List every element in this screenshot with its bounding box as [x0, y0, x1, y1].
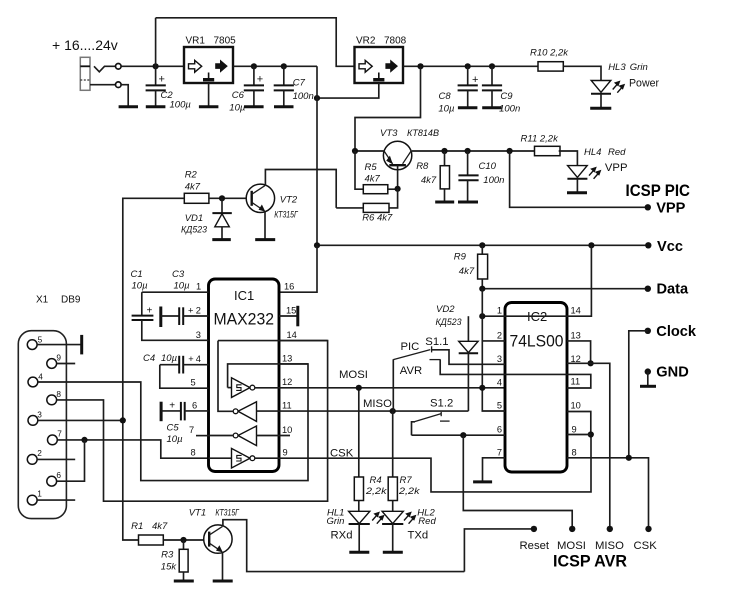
svg-text:IC1: IC1	[234, 288, 254, 303]
svg-text:10: 10	[282, 425, 292, 435]
svg-text:3: 3	[196, 330, 201, 340]
svg-text:КД523: КД523	[436, 317, 463, 328]
junction: VT3 feed	[417, 63, 423, 69]
svg-text:RXd: RXd	[331, 530, 353, 542]
svg-text:1: 1	[196, 282, 201, 292]
junction: pin1/Data riser	[479, 313, 485, 319]
svg-text:11: 11	[571, 376, 581, 386]
resistor R2	[184, 193, 209, 203]
wire: Vcc line	[317, 244, 648, 246]
svg-text:9: 9	[56, 353, 61, 363]
svg-text:КД523: КД523	[181, 225, 208, 236]
svg-text:C6: C6	[232, 90, 245, 101]
svg-text:9: 9	[283, 448, 288, 458]
svg-text:TXd: TXd	[408, 530, 429, 542]
junction: C9	[489, 63, 495, 69]
wire: Reset jog	[464, 529, 534, 572]
node MISO terminal	[607, 526, 613, 532]
wire: VT1 collector to Reset	[223, 520, 465, 572]
svg-text:R8: R8	[416, 161, 429, 172]
diode VD2 KD523	[467, 316, 469, 341]
capacitor C3	[159, 307, 162, 328]
capacitor C2	[155, 66, 157, 85]
svg-text:Red: Red	[418, 516, 436, 527]
svg-text:1: 1	[497, 306, 502, 316]
junction: 5V at VR2 gnd	[314, 95, 320, 101]
svg-text:C1: C1	[131, 269, 143, 280]
junction: pin9/10	[588, 431, 594, 437]
svg-text:+: +	[159, 74, 165, 86]
node Vcc terminal	[645, 242, 651, 248]
junction: VT3 emitter / R5	[352, 148, 358, 154]
wire: IC2 pin14 to Vcc	[505, 245, 591, 316]
svg-text:C5: C5	[167, 423, 180, 434]
ground	[212, 238, 231, 241]
svg-text:6: 6	[56, 470, 61, 480]
wire: MAX232 pin7 stub	[196, 435, 209, 437]
wire: S1.1 PIC contact to IC2 pin3	[432, 350, 505, 365]
regulator VR1 7805	[184, 47, 233, 83]
wire: IC2 pin7 to ground	[483, 458, 506, 481]
svg-text:12: 12	[571, 354, 581, 364]
svg-text:CSK: CSK	[634, 540, 658, 552]
svg-text:ICSP PIC: ICSP PIC	[626, 182, 691, 200]
svg-text:MISO: MISO	[363, 398, 392, 410]
ground	[567, 191, 587, 194]
capacitor C9	[491, 66, 493, 85]
capacitor C6	[253, 66, 255, 85]
resistor R7	[392, 411, 394, 477]
wire: Data line	[482, 288, 648, 290]
junction: C10	[465, 148, 471, 154]
svg-text:S1.2: S1.2	[430, 398, 453, 410]
svg-text:S1.1: S1.1	[425, 336, 448, 348]
DB9 pin 9	[47, 359, 57, 369]
wire: Clock to IC2 pin8	[629, 331, 648, 458]
svg-text:R3: R3	[161, 550, 174, 561]
svg-text:2: 2	[497, 330, 502, 340]
node VPP terminal	[645, 204, 651, 210]
svg-text:8: 8	[56, 389, 61, 399]
svg-text:4k7: 4k7	[185, 182, 201, 193]
node Clock terminal	[645, 328, 651, 334]
svg-text:15: 15	[286, 306, 296, 316]
junction: pin6/MOSI	[460, 432, 466, 438]
svg-text:Grin: Grin	[630, 62, 648, 73]
wire: VT2 emitter to ground	[264, 211, 266, 239]
svg-text:C9: C9	[500, 91, 513, 102]
switch plug contact	[94, 66, 115, 72]
svg-text:VPP: VPP	[605, 162, 628, 174]
wire: riser to top bus	[155, 18, 157, 67]
svg-text:15k: 15k	[161, 562, 178, 573]
LED HL4	[568, 166, 588, 178]
svg-text:10µ: 10µ	[161, 353, 178, 364]
svg-text:C3: C3	[172, 269, 185, 280]
switch S1.1	[392, 359, 394, 411]
svg-text:КТ315Г: КТ315Г	[215, 508, 239, 519]
wire: VR1 ground pin	[208, 83, 210, 106]
resistor R6	[389, 189, 398, 208]
wire: 5V to MAX232 pin16	[279, 245, 317, 292]
svg-text:Clock: Clock	[656, 324, 697, 340]
svg-text:HL3: HL3	[608, 62, 626, 73]
wire: +16V to VR1 input	[121, 65, 184, 67]
svg-text:PIC: PIC	[401, 341, 420, 353]
svg-text:R4: R4	[370, 475, 382, 486]
svg-text:VT1: VT1	[189, 508, 206, 519]
node Data terminal	[645, 286, 651, 292]
svg-text:74LS00: 74LS00	[510, 332, 564, 351]
svg-text:Red: Red	[608, 147, 626, 158]
wire: VT1 emitter to ground	[222, 552, 224, 580]
svg-text:10µ: 10µ	[167, 434, 184, 445]
svg-text:X1: X1	[36, 295, 49, 306]
wire: VPP line to terminal	[510, 151, 648, 207]
wire: VR2 ground pin lift to 5V	[317, 83, 379, 98]
svg-text:C10: C10	[479, 161, 497, 172]
svg-text:VT2: VT2	[280, 195, 298, 206]
svg-text:2: 2	[196, 306, 201, 316]
LED HL2	[382, 511, 403, 523]
svg-text:DB9: DB9	[61, 295, 81, 306]
svg-text:R10 2,2k: R10 2,2k	[530, 47, 569, 58]
junction: R2/VD1/VT2 base	[219, 195, 225, 201]
svg-text:11: 11	[282, 401, 292, 411]
wire: Data riser down to pins 4,5	[482, 289, 505, 411]
svg-text:VD1: VD1	[185, 213, 203, 224]
svg-text:10: 10	[571, 401, 581, 411]
node Reset terminal	[531, 526, 537, 532]
svg-text:VT3: VT3	[380, 128, 398, 139]
wire: DB9 pin4 to MAX232 pin13	[38, 364, 308, 481]
svg-text:10µ: 10µ	[132, 281, 149, 292]
svg-text:+: +	[188, 306, 193, 316]
svg-text:7808: 7808	[384, 36, 407, 47]
junction: Clock tap	[626, 455, 632, 461]
wire: IC2 pin13 joins pin12	[567, 341, 591, 363]
svg-text:+: +	[257, 74, 263, 86]
wire: IC2 pin2	[482, 340, 505, 342]
ground	[473, 480, 492, 483]
svg-text:100µ: 100µ	[170, 100, 192, 111]
resistor R9	[481, 245, 483, 254]
switch S1.2	[412, 422, 416, 435]
svg-text:R11 2,2k: R11 2,2k	[521, 133, 560, 144]
junction: Vcc at IC2 pin14	[588, 242, 594, 248]
wire: IC2 pin6 row	[412, 434, 506, 436]
DB9 pin 3	[28, 416, 38, 426]
svg-text:2,2k: 2,2k	[365, 486, 388, 497]
wire: VR1 output rail	[233, 65, 317, 67]
svg-text:ICSP AVR: ICSP AVR	[553, 553, 627, 571]
svg-text:R7: R7	[400, 475, 413, 486]
capacitor C10	[467, 151, 469, 175]
svg-text:HL4: HL4	[584, 147, 601, 158]
svg-text:4: 4	[196, 354, 201, 364]
ground	[119, 105, 138, 108]
svg-text:9: 9	[572, 425, 577, 435]
svg-text:100n: 100n	[499, 104, 520, 115]
transistor VT2 KT315G	[246, 184, 274, 212]
svg-text:AVR: AVR	[400, 365, 422, 377]
wire: MAX232 pin15 to ground bar	[279, 315, 298, 317]
svg-text:VR1: VR1	[186, 36, 206, 47]
svg-text:2: 2	[37, 448, 42, 458]
svg-text:CSK: CSK	[330, 448, 354, 460]
svg-text:7: 7	[497, 447, 502, 457]
svg-text:16: 16	[284, 282, 294, 292]
ground	[590, 107, 611, 110]
svg-text:14: 14	[571, 306, 581, 316]
junction: input node	[153, 63, 159, 69]
svg-text:10µ: 10µ	[229, 103, 246, 114]
wire: IC2 pin12 to MISO terminal	[567, 363, 610, 529]
svg-text:12: 12	[282, 377, 292, 387]
svg-text:R1: R1	[131, 521, 143, 532]
svg-text:R9: R9	[454, 252, 467, 263]
IC IC2 74LS00	[505, 303, 567, 473]
junction: pin4	[479, 385, 485, 391]
svg-text:4: 4	[38, 372, 43, 382]
DB9 pin 2	[27, 455, 37, 465]
wire: IC2 pin1	[482, 315, 505, 317]
resistor R11	[535, 146, 561, 155]
resistor R3	[183, 540, 185, 549]
svg-text:КТ315Г: КТ315Г	[274, 210, 298, 221]
svg-text:13: 13	[571, 330, 581, 340]
svg-text:+: +	[188, 354, 193, 364]
svg-text:R6 4k7: R6 4k7	[362, 213, 393, 224]
wire: S1.1 AVR contact to IC2 pin11	[430, 359, 441, 361]
svg-text:4k7: 4k7	[459, 266, 475, 277]
wire: 5V rail down	[316, 66, 318, 245]
junction: Vcc at R9	[479, 242, 485, 248]
ground	[213, 580, 233, 583]
wire: MAX232 pin14 row	[218, 340, 328, 342]
ground	[255, 238, 275, 241]
junction: VPP takeoff	[507, 148, 513, 154]
svg-text:C7: C7	[293, 78, 306, 89]
DB9 pin 1	[27, 495, 37, 505]
junction: Vcc at 5V riser	[314, 242, 320, 248]
svg-text:VPP: VPP	[656, 201, 685, 217]
resistor R4	[358, 388, 360, 477]
junction: C8	[465, 63, 471, 69]
svg-text:Vcc: Vcc	[657, 239, 683, 255]
resistor R1	[139, 535, 164, 545]
svg-text:6: 6	[192, 400, 197, 410]
DB9 pin 4	[28, 377, 38, 387]
svg-text:R2: R2	[185, 170, 198, 181]
svg-text:5: 5	[497, 401, 502, 411]
junction: MISO/S1.1 pole/R7	[390, 408, 396, 414]
capacitor C1	[141, 292, 143, 315]
svg-text:4k7: 4k7	[152, 521, 168, 532]
svg-text:Data: Data	[657, 281, 690, 297]
transistor VT3 KT814B	[355, 141, 535, 189]
wire: VR2 output rail	[403, 65, 538, 67]
svg-text:MISO: MISO	[595, 540, 624, 552]
wire: MAX232 pin12 MOSI row	[255, 387, 505, 389]
ground	[174, 580, 194, 583]
svg-text:MAX232: MAX232	[214, 310, 275, 329]
inverter U1D (pins 8-9)	[209, 448, 255, 468]
ground	[349, 551, 369, 554]
wire: VT2 collector to R6	[265, 170, 336, 208]
junction: VT3 base	[395, 186, 401, 192]
junction: pin7/pin6	[81, 437, 87, 443]
svg-text:R5: R5	[365, 162, 378, 173]
junction: pin3 / R2 riser	[120, 417, 126, 423]
svg-text:8: 8	[191, 448, 196, 458]
svg-text:1: 1	[37, 489, 42, 499]
DB9 pin 5	[27, 340, 37, 350]
svg-text:Power: Power	[629, 78, 659, 90]
svg-text:Reset: Reset	[520, 540, 550, 552]
junction: C7	[281, 63, 287, 69]
svg-text:100n: 100n	[293, 91, 314, 102]
ground	[274, 105, 294, 108]
wire: pin6 joins pin7	[57, 440, 85, 481]
LED HL1	[349, 511, 370, 523]
capacitor C5	[160, 402, 163, 422]
svg-text:+: +	[147, 306, 153, 317]
svg-text:4k7: 4k7	[365, 174, 381, 185]
DB9 pin 7	[48, 435, 58, 445]
transistor VT1 KT315G	[204, 525, 232, 553]
svg-text:Grin: Grin	[327, 516, 345, 527]
svg-text:5: 5	[191, 378, 196, 388]
junction: R1/R3/VT1 base	[180, 537, 186, 543]
svg-text:13: 13	[282, 353, 292, 363]
inverter U1B (pins 11-14)	[218, 341, 257, 422]
svg-text:7: 7	[57, 429, 62, 439]
ground	[383, 551, 403, 554]
svg-text:10µ: 10µ	[438, 104, 455, 115]
svg-text:VR2: VR2	[356, 36, 376, 47]
svg-text:C8: C8	[439, 91, 452, 102]
capacitor C4	[160, 364, 179, 366]
capacitor C7	[283, 66, 285, 85]
inverter U1C (pins 10-7)	[209, 426, 291, 446]
wire: R2 left down to DB9 pin3 and R1	[123, 198, 185, 540]
svg-text:VD2: VD2	[436, 304, 455, 315]
DB9 pin 8	[47, 395, 57, 405]
svg-text:7805: 7805	[214, 36, 237, 47]
resistor R5	[355, 151, 363, 189]
svg-text:100n: 100n	[483, 175, 504, 186]
wire: R10 to HL3	[563, 66, 601, 80]
wire: MAX232 pin11 MISO row	[257, 410, 469, 412]
svg-text:10µ: 10µ	[174, 281, 191, 292]
node CSK terminal	[645, 526, 651, 532]
node GND terminal	[645, 368, 651, 374]
svg-text:КТ814В: КТ814В	[407, 128, 440, 139]
wire: top bus to VR2 input	[156, 18, 355, 67]
wire: VR2 out down to VT3 emitter	[355, 66, 421, 151]
junction: R8	[441, 148, 447, 154]
capacitor C8	[467, 66, 469, 85]
svg-text:GND: GND	[656, 364, 688, 380]
ground	[458, 106, 478, 109]
wire: IC2 pin10 joins pin9	[567, 412, 591, 435]
ground	[647, 372, 649, 386]
wire: jack negative to ground	[90, 84, 115, 86]
svg-text:7: 7	[189, 425, 194, 435]
svg-text:+ 16....24v: + 16....24v	[52, 37, 118, 53]
wire: DB9 pin7 to MAX232 pin8	[57, 440, 208, 458]
LED HL3	[591, 81, 611, 93]
svg-text:+: +	[169, 401, 175, 412]
ground	[482, 106, 502, 109]
ground	[458, 201, 478, 204]
ground	[435, 201, 454, 204]
ground	[146, 105, 166, 108]
regulator VR2 7808	[355, 47, 404, 83]
svg-text:MOSI: MOSI	[557, 540, 586, 552]
svg-text:+: +	[472, 74, 478, 86]
DB9 pin 6	[47, 476, 57, 486]
wire: R11 to HL4	[559, 151, 578, 166]
svg-text:MOSI: MOSI	[339, 369, 368, 381]
IC IC1 MAX232	[209, 279, 280, 472]
svg-text:8: 8	[572, 447, 577, 457]
resistor R10	[538, 62, 563, 71]
diode VD1 KD523	[221, 198, 223, 213]
svg-text:6: 6	[497, 425, 502, 435]
connector X2 power jack	[80, 57, 90, 90]
node MOSI terminal	[569, 526, 575, 532]
wire: DB9 pin8 to MAX232 pin14	[57, 341, 328, 502]
inverter U1A (pins 13-12)	[228, 364, 308, 398]
svg-text:3: 3	[37, 410, 42, 420]
ground	[244, 105, 264, 108]
junction: pin12/13	[588, 360, 594, 366]
svg-text:4: 4	[497, 377, 502, 387]
wire: MAX232 pin1	[142, 291, 209, 293]
resistor R8	[444, 151, 446, 166]
svg-text:14: 14	[287, 330, 297, 340]
wire: IC2 pin9 row	[567, 434, 591, 436]
svg-text:5: 5	[38, 335, 43, 345]
ground	[199, 105, 219, 108]
wire: IC2 pin8 to CSK terminal	[567, 458, 649, 529]
junction: Data at R9	[479, 286, 485, 292]
wire: pin6 to MOSI terminal	[463, 435, 572, 529]
wire: MAX232 pin9 CSK row	[255, 435, 591, 492]
junction: C6	[251, 63, 257, 69]
svg-text:C4: C4	[143, 353, 155, 364]
ground bar pin5	[80, 335, 83, 355]
svg-text:3: 3	[497, 354, 502, 364]
svg-text:2,2k: 2,2k	[398, 486, 421, 497]
svg-text:4k7: 4k7	[421, 175, 437, 186]
